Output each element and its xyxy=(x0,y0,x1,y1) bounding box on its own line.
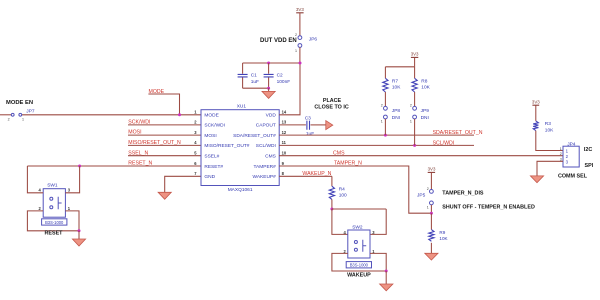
svg-text:PLACE: PLACE xyxy=(323,98,342,104)
svg-text:SHUNT OFF - TEMPER_N ENABLED: SHUNT OFF - TEMPER_N ENABLED xyxy=(442,204,535,210)
resistor R8 xyxy=(412,67,431,92)
svg-text:JP5: JP5 xyxy=(417,192,426,198)
connector JP6 DUT VDD EN xyxy=(295,33,317,53)
wire R4 to junction xyxy=(331,199,333,209)
junction SDA / R7 xyxy=(384,134,387,137)
net label RESET_N xyxy=(128,160,152,166)
switch SW2 xyxy=(344,224,376,258)
wire SW2 pin3 branch xyxy=(370,209,386,234)
op-amp XU1 MAXQ1061 IC body xyxy=(201,104,279,193)
wire SW1 pin1 branch xyxy=(65,211,79,231)
svg-text:MODE: MODE xyxy=(204,113,218,119)
svg-text:10K: 10K xyxy=(421,85,430,91)
wire SW2 ground stem xyxy=(385,271,387,284)
svg-text:I2C: I2C xyxy=(584,147,592,153)
resistor R3 xyxy=(533,121,554,133)
wire SW1 pin2 branch xyxy=(27,211,79,231)
svg-text:SDA/RESET_OUT_N: SDA/RESET_OUT_N xyxy=(433,130,483,136)
svg-text:3V3: 3V3 xyxy=(411,52,419,57)
svg-text:SCK/WDI: SCK/WDI xyxy=(204,123,225,129)
wire SW2 pin1 branch xyxy=(370,253,386,271)
svg-text:C2: C2 xyxy=(277,73,283,79)
svg-text:CAPOUT: CAPOUT xyxy=(256,123,276,129)
capacitor C1 xyxy=(238,63,259,88)
svg-text:100: 100 xyxy=(339,193,347,199)
svg-text:SDA/RESET_OUT#: SDA/RESET_OUT# xyxy=(233,133,276,139)
junction SCL / R8 xyxy=(413,144,416,147)
ground decoupling xyxy=(262,91,275,98)
svg-text:C3: C3 xyxy=(305,115,311,121)
svg-text:3V3: 3V3 xyxy=(532,100,540,105)
svg-text:GND: GND xyxy=(204,174,215,180)
svg-text:VDD: VDD xyxy=(266,113,277,119)
svg-text:SW1: SW1 xyxy=(47,183,58,189)
svg-text:MAXQ1061: MAXQ1061 xyxy=(228,187,253,193)
resistor R4 xyxy=(329,176,347,199)
pin names XU1 left xyxy=(204,113,249,181)
svg-text:JP7: JP7 xyxy=(26,109,35,115)
svg-text:B3S-1000: B3S-1000 xyxy=(350,263,369,268)
svg-text:1: 1 xyxy=(295,49,297,53)
svg-text:1: 1 xyxy=(560,147,562,151)
svg-text:2: 2 xyxy=(560,152,562,156)
svg-text:SCL/WDI: SCL/WDI xyxy=(256,143,276,149)
svg-text:10K: 10K xyxy=(545,127,554,133)
svg-text:JP8: JP8 xyxy=(392,108,401,114)
svg-text:WAKEUP: WAKEUP xyxy=(347,272,371,278)
junction VDD rail xyxy=(299,62,302,65)
jumper JP8 DNI xyxy=(381,92,401,123)
svg-text:SSEL#: SSEL# xyxy=(204,154,219,160)
jumper JP5 xyxy=(417,187,433,210)
node MODE EN xyxy=(6,100,33,106)
svg-text:10: 10 xyxy=(282,151,287,156)
ground SW2 xyxy=(380,284,393,291)
svg-text:RESET#: RESET# xyxy=(204,164,223,170)
svg-text:1uF: 1uF xyxy=(306,131,314,137)
net label SDA/RESET_OUT_N xyxy=(433,130,483,136)
wire SCK/WDI xyxy=(128,124,201,126)
wire R9 to ground xyxy=(430,243,432,254)
net label WAKEUP_N xyxy=(302,171,331,177)
wire SCL/WDI xyxy=(279,144,474,146)
note PLACE CLOSE TO IC xyxy=(314,98,348,110)
svg-text:10K: 10K xyxy=(392,85,401,91)
wire CMS xyxy=(279,155,563,157)
svg-text:R7: R7 xyxy=(392,78,398,84)
node WAKEUP xyxy=(347,272,371,278)
net label SCK/WDI xyxy=(128,119,150,125)
net label MOSI xyxy=(128,130,141,136)
wire WAKEUP_N xyxy=(279,175,332,177)
wire MODE EN left segment xyxy=(0,114,11,116)
svg-text:10K: 10K xyxy=(439,236,448,241)
svg-text:JP6: JP6 xyxy=(309,36,318,42)
svg-text:11: 11 xyxy=(282,140,287,145)
power 3V3 (top, JP6) xyxy=(296,7,304,36)
wire SW2 top rail xyxy=(332,208,386,210)
resistor R9 xyxy=(429,230,449,242)
junction MODE/pin1 xyxy=(178,113,181,116)
svg-text:13: 13 xyxy=(282,120,287,125)
ground JP4 xyxy=(530,176,543,183)
svg-text:WAKEUP_N: WAKEUP_N xyxy=(302,171,331,177)
svg-text:DNI: DNI xyxy=(392,115,400,121)
off-page arrow CAPOUT xyxy=(326,121,333,130)
svg-text:CLOSE TO IC: CLOSE TO IC xyxy=(314,104,348,110)
net label SCL/WDI xyxy=(433,140,455,146)
svg-text:R4: R4 xyxy=(339,186,345,192)
svg-text:COMM SEL: COMM SEL xyxy=(558,174,588,180)
connector JP4 xyxy=(560,141,580,167)
svg-text:DUT VDD EN: DUT VDD EN xyxy=(260,38,297,44)
node RESET xyxy=(45,230,64,236)
wire SW1 ground stem xyxy=(78,231,80,239)
junction C2 top xyxy=(267,62,270,65)
wire VDD rail down to pin 14 xyxy=(279,63,300,115)
svg-text:SCL/WDI: SCL/WDI xyxy=(433,140,455,146)
wire JP8 to SDA xyxy=(384,119,386,135)
node SPI xyxy=(585,163,594,169)
wire JP9 to SCL xyxy=(414,119,416,145)
power 3V3 (R3) xyxy=(532,100,540,121)
net label CMS xyxy=(333,150,345,156)
svg-text:14: 14 xyxy=(282,110,287,115)
net label MISO/RESET_OUT_N xyxy=(128,140,181,146)
junction TAMPER / JP5 / R9 xyxy=(430,212,433,215)
jumper JP9 DNI xyxy=(410,92,429,123)
net label SSEL_N xyxy=(128,150,148,156)
wire CAPOUT to C3 xyxy=(279,124,306,126)
wire SW1 pin4 branch xyxy=(27,166,43,193)
junction RESET_N / SW1 xyxy=(78,165,81,168)
svg-text:1: 1 xyxy=(381,119,383,123)
pin names XU1 right xyxy=(233,113,276,181)
svg-text:R3: R3 xyxy=(545,121,551,127)
wire decoupling bottom xyxy=(243,87,269,89)
svg-text:TAMPER_N_DIS: TAMPER_N_DIS xyxy=(442,191,484,197)
svg-text:MOSI: MOSI xyxy=(204,133,216,139)
junction SW1 bottom xyxy=(78,229,81,232)
wire decoupling top xyxy=(243,62,300,64)
svg-text:XU1: XU1 xyxy=(237,104,247,110)
svg-text:MODE EN: MODE EN xyxy=(6,100,33,106)
svg-text:3V3: 3V3 xyxy=(296,7,304,12)
note TAMPER_N_DIS xyxy=(442,191,484,197)
power 3V3 (R7/R8) xyxy=(411,52,419,67)
wire R7/R8 top rail xyxy=(385,66,414,68)
ground R9 xyxy=(425,253,438,260)
wire MOSI xyxy=(128,134,201,136)
svg-text:CMS: CMS xyxy=(333,150,345,156)
capacitor C3 xyxy=(305,115,315,137)
svg-text:TAMPER#: TAMPER# xyxy=(253,164,276,170)
wire RESET_N xyxy=(27,165,201,167)
svg-text:B3S-1000: B3S-1000 xyxy=(45,220,64,225)
svg-text:SPI: SPI xyxy=(585,163,594,169)
wire SW1 pin3 branch xyxy=(65,166,79,193)
node DUT VDD EN xyxy=(260,38,297,44)
wire C3 to off-page arrow xyxy=(311,124,326,126)
pin numbers XU1 right 14-8 xyxy=(282,110,287,177)
junction R4 / SW2 top xyxy=(330,208,333,211)
svg-text:DNI: DNI xyxy=(421,115,429,121)
svg-text:MISO/RESET_OUT#: MISO/RESET_OUT# xyxy=(204,143,249,149)
part label box B3S-1000 (SW1) xyxy=(42,219,67,225)
wire SSEL_N xyxy=(128,155,201,157)
wire SDA/RESET_OUT_N xyxy=(279,134,474,136)
svg-text:1: 1 xyxy=(22,118,24,122)
power 3V3 (JP5) xyxy=(428,167,436,190)
part label box B3S-1000 (SW2) xyxy=(346,262,371,268)
net label MODE xyxy=(149,89,165,95)
wire MODE net label stub xyxy=(148,94,179,115)
node COMM SEL xyxy=(558,174,588,180)
wire ground stem decoupling xyxy=(268,88,270,91)
wire TAMPER_N xyxy=(279,166,431,213)
svg-text:TAMPER_N: TAMPER_N xyxy=(334,161,362,167)
svg-text:2: 2 xyxy=(410,104,412,108)
svg-text:12: 12 xyxy=(282,130,287,135)
svg-text:1uF: 1uF xyxy=(251,79,259,85)
svg-text:JP9: JP9 xyxy=(421,108,430,114)
svg-text:2: 2 xyxy=(427,187,429,191)
ground IC GND pin xyxy=(158,192,171,199)
pin numbers XU1 left 1-7 xyxy=(194,110,197,177)
svg-text:2: 2 xyxy=(295,33,297,37)
connector JP7 xyxy=(8,109,35,122)
svg-text:R9: R9 xyxy=(439,230,445,235)
net label TAMPER_N xyxy=(334,161,362,167)
wire SW2 pin2 branch xyxy=(332,253,386,271)
svg-text:2: 2 xyxy=(8,118,10,122)
wire MISO/RESET_OUT_N xyxy=(128,144,201,146)
svg-text:1: 1 xyxy=(410,119,412,123)
node I2C xyxy=(584,147,592,153)
switch SW1 xyxy=(39,183,71,218)
capacitor C2 xyxy=(264,63,291,88)
junction SW2 bottom xyxy=(385,270,388,273)
resistor R7 xyxy=(383,67,401,92)
junction decoupling ground xyxy=(267,87,270,90)
wire JP4 pin3 to ground xyxy=(537,161,563,176)
svg-text:R8: R8 xyxy=(421,78,427,84)
note SHUNT OFF - TEMPER_N ENABLED xyxy=(442,204,535,210)
ground SW1 xyxy=(72,239,85,246)
wire R3 to JP4 pin1 xyxy=(536,131,563,151)
svg-text:2: 2 xyxy=(381,104,383,108)
wire JP6 to VDD rail xyxy=(299,47,301,63)
svg-text:100nF: 100nF xyxy=(277,79,291,85)
svg-text:3V3: 3V3 xyxy=(428,167,436,172)
svg-text:C1: C1 xyxy=(251,73,257,79)
svg-text:RESET: RESET xyxy=(45,230,64,236)
svg-text:CMS: CMS xyxy=(265,154,276,160)
wire JP5 to junction xyxy=(430,205,432,213)
wire SW2 pin4 branch xyxy=(332,209,348,234)
svg-text:1: 1 xyxy=(427,205,429,209)
wire junction to R9 xyxy=(430,213,432,229)
wire IC pin7 GND xyxy=(165,176,201,192)
svg-text:WAKEUP#: WAKEUP# xyxy=(253,174,277,180)
wire MODE EN to IC pin 1 xyxy=(22,114,201,116)
